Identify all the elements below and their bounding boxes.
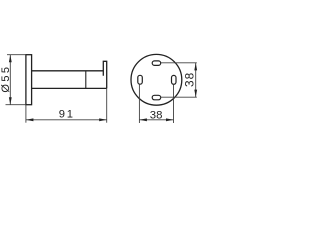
vertical dimension 38: down arrow bbox=[194, 90, 197, 98]
dimension Ø55: bottom extension line bbox=[6, 104, 26, 106]
side view: arm/end-cap separator bbox=[85, 71, 87, 89]
horizontal dimension 38: left extension line bbox=[138, 84, 140, 123]
svg-text:38: 38 bbox=[183, 72, 197, 87]
dimension 91: dimension line bbox=[26, 119, 107, 121]
dimension 91: right arrow bbox=[99, 118, 107, 121]
svg-text:91: 91 bbox=[59, 109, 75, 121]
front view: right slot bbox=[172, 75, 177, 84]
dimension Ø55: top extension line bbox=[7, 54, 26, 56]
dimension 91: right extension line bbox=[106, 88, 108, 122]
front view: top slot bbox=[152, 61, 161, 66]
horizontal dimension 38: right extension line bbox=[173, 84, 175, 123]
dimension 91: left arrow bbox=[26, 118, 34, 121]
side view: wall plate bbox=[26, 55, 32, 105]
side view: arm top line bbox=[32, 70, 104, 72]
front view: backplate circle bbox=[131, 54, 182, 105]
vertical dimension 38: up arrow bbox=[194, 63, 197, 71]
front view: left slot bbox=[138, 75, 143, 84]
side view: arm bottom line bbox=[32, 87, 107, 89]
front view: bottom slot bbox=[152, 95, 161, 100]
horizontal dimension 38: left arrow bbox=[139, 118, 147, 121]
horizontal dimension 38: dimension line bbox=[139, 119, 173, 121]
dimension Ø55: up arrow bbox=[9, 55, 12, 63]
dimension Ø55: dimension line bbox=[9, 55, 11, 105]
dimension 91: left extension line bbox=[25, 105, 27, 123]
vertical dimension 38: dimension line bbox=[195, 63, 197, 97]
side view: hook end post bbox=[103, 61, 106, 88]
vertical dimension 38: bottom extension line bbox=[160, 96, 197, 98]
svg-text:Ø55: Ø55 bbox=[0, 65, 12, 93]
svg-text:38: 38 bbox=[150, 109, 163, 121]
dimension Ø55: down arrow bbox=[9, 97, 12, 105]
vertical dimension 38: top extension line bbox=[161, 62, 197, 64]
horizontal dimension 38: right arrow bbox=[166, 118, 174, 121]
